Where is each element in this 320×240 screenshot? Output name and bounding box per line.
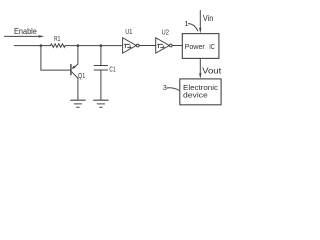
wire Enable arrow [5, 35, 45, 38]
svg-text:R1: R1 [54, 36, 60, 43]
wire U2 to Power IC [172, 45, 182, 47]
svg-text:U2: U2 [162, 27, 170, 36]
Electronic device box [180, 79, 221, 105]
node junction dot C1 tap [100, 44, 103, 47]
node junction dot base tap [40, 44, 43, 47]
inverter U2 [156, 27, 172, 53]
inverter U1 [123, 27, 139, 53]
svg-text:U1: U1 [125, 27, 132, 36]
svg-text:Q1: Q1 [78, 71, 85, 80]
wire Vout [199, 58, 222, 78]
svg-text:Enable: Enable [14, 27, 37, 36]
svg-text:Vin: Vin [203, 14, 213, 23]
wire main input rail [14, 45, 50, 47]
wire C1 top lead [100, 46, 102, 66]
node Enable label [14, 27, 37, 36]
Power IC box [182, 34, 219, 59]
svg-text:3: 3 [163, 83, 167, 92]
node junction dot emitter tap [77, 44, 80, 47]
wire base tap to Q1 base [41, 46, 71, 71]
svg-text:C1: C1 [109, 64, 115, 73]
transistor Q1 [71, 46, 85, 100]
resistor R1 [51, 36, 66, 47]
svg-text:Power: Power [185, 42, 206, 51]
node label 1 leader [184, 19, 197, 31]
node Vin [199, 11, 213, 34]
svg-text:Vout: Vout [202, 67, 222, 76]
capacitor C1 [94, 64, 115, 73]
ground under Q1 [71, 100, 86, 107]
node label 3 leader [163, 83, 180, 92]
wire U1 to U2 [139, 45, 156, 47]
ground under C1 [94, 100, 109, 107]
wire R1 to U1 [65, 45, 122, 47]
wire C1 bottom lead [100, 70, 102, 100]
svg-text:device: device [183, 90, 208, 99]
svg-text:IC: IC [209, 42, 215, 51]
